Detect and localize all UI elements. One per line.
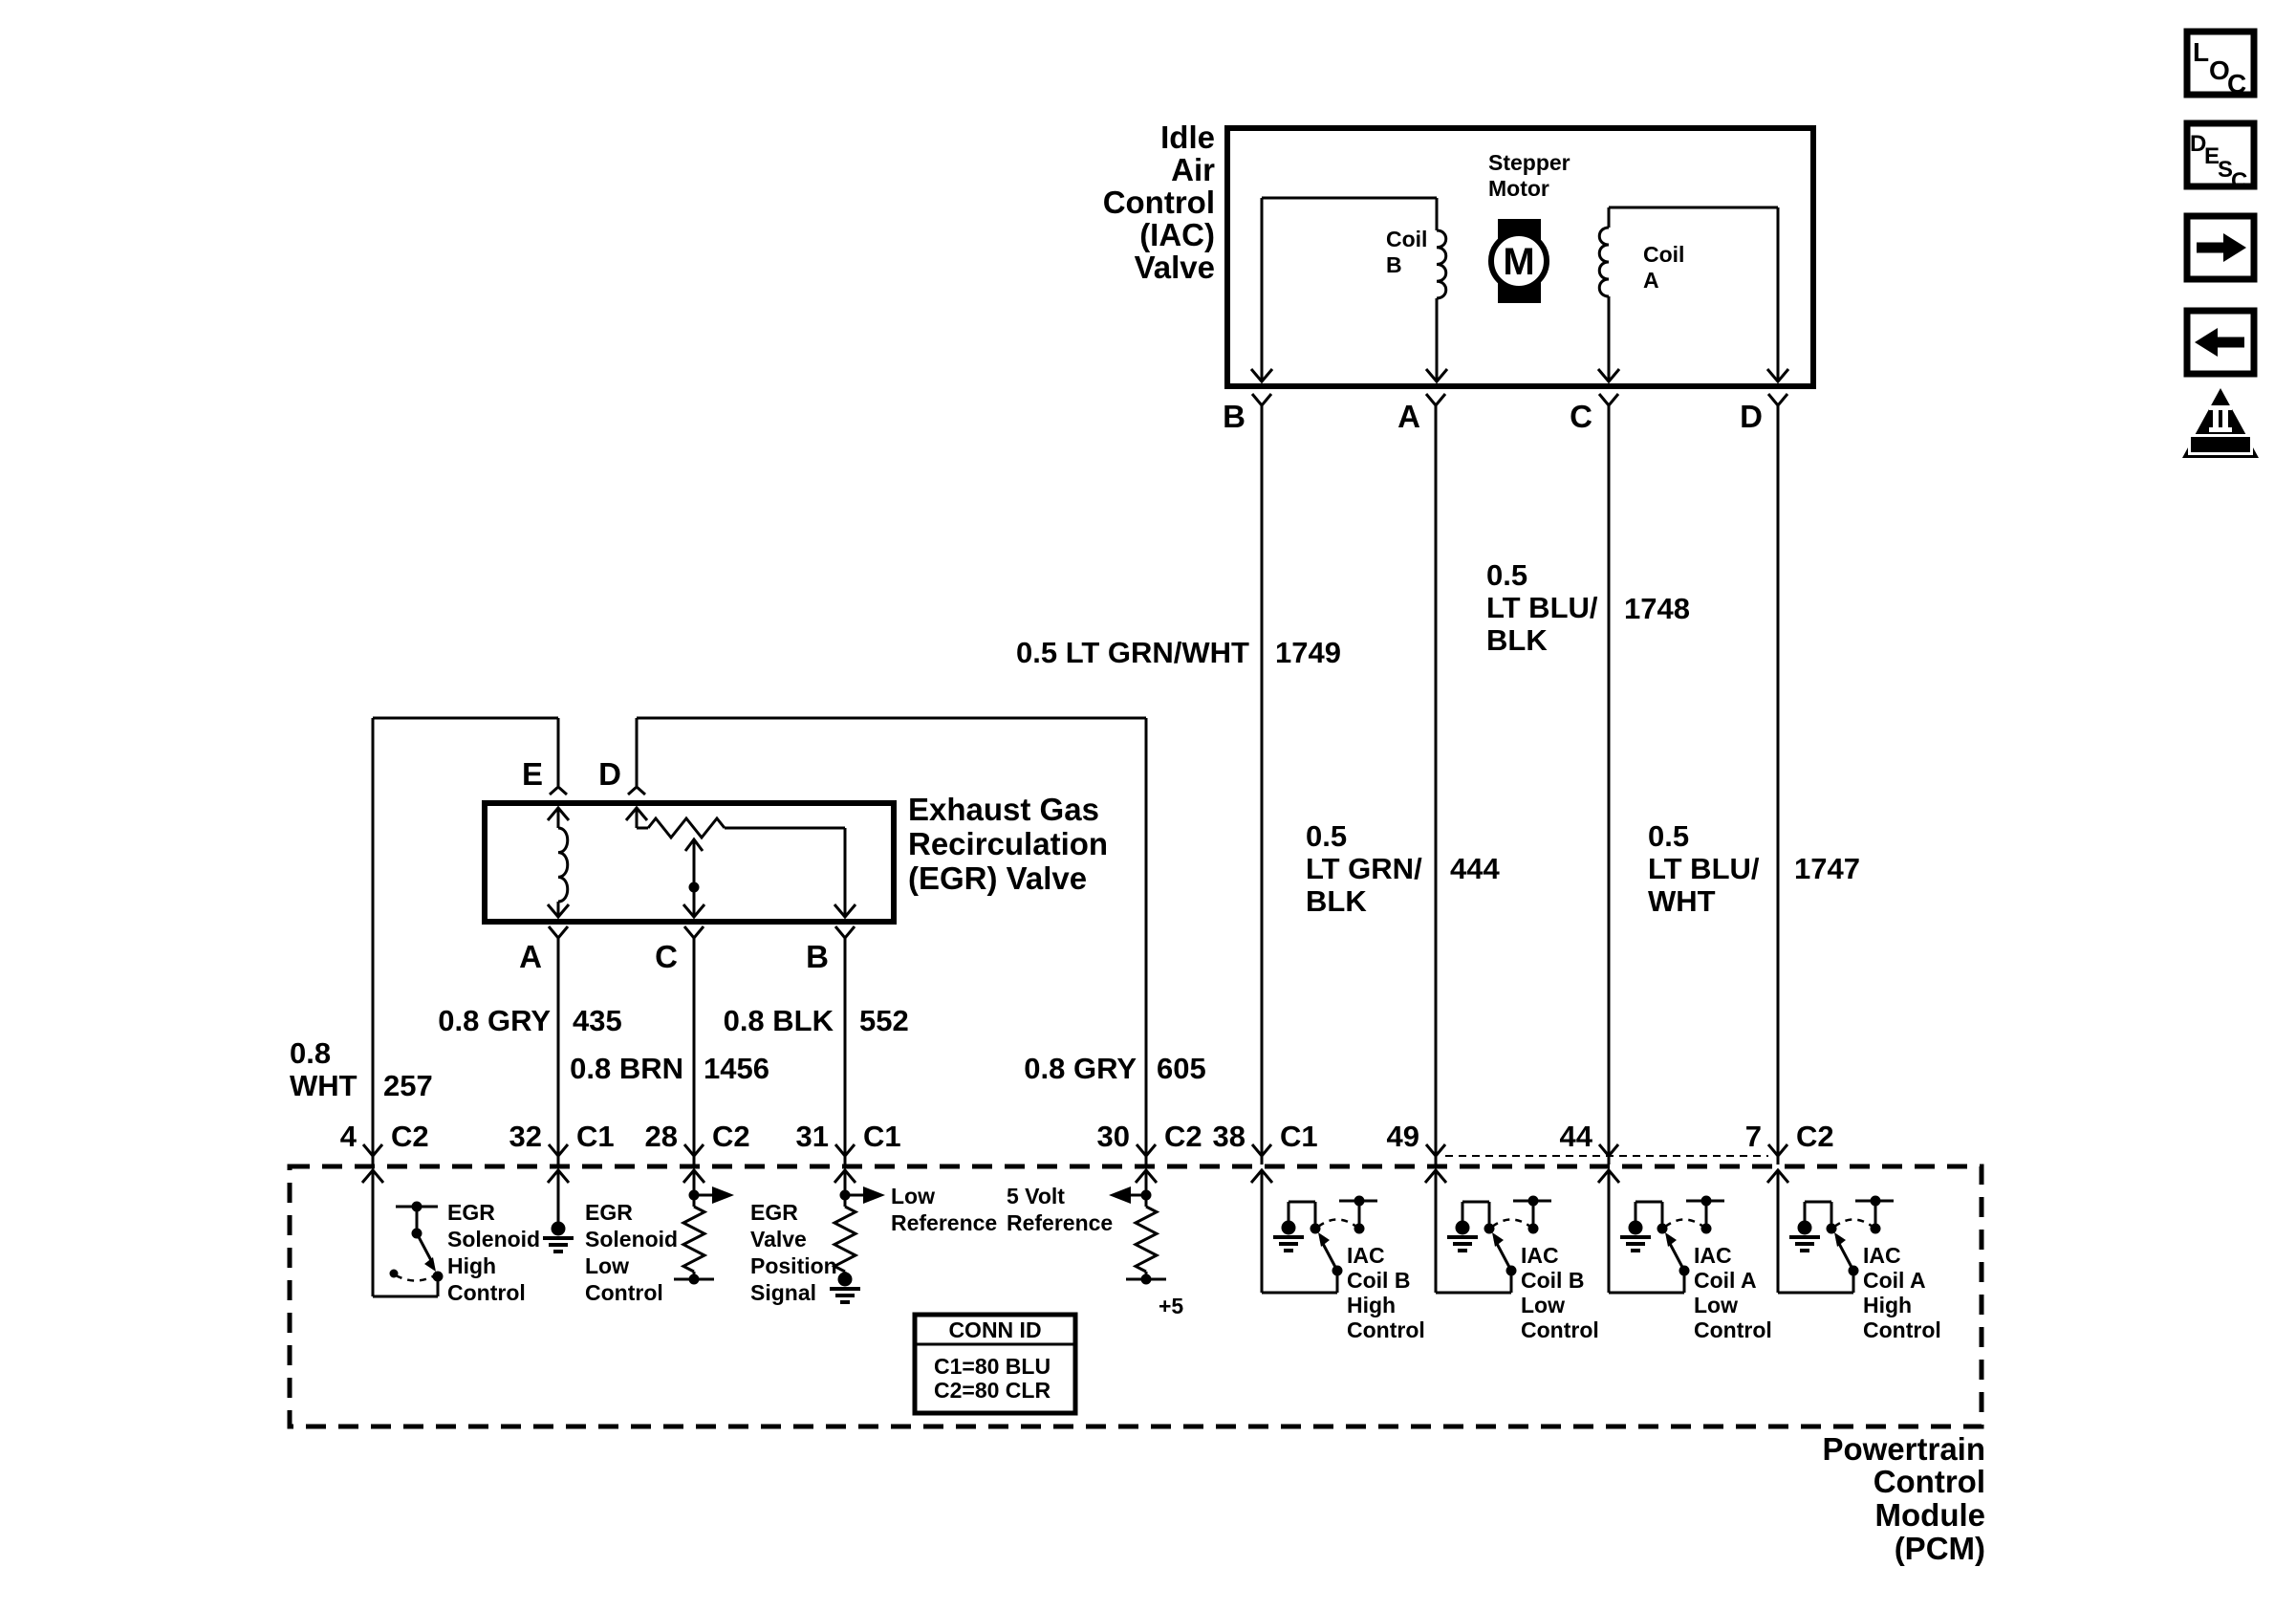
PCM module dashed box: [290, 1166, 1982, 1426]
PCM pin 38 connector C1: [1252, 1144, 1271, 1156]
pin C of IAC valve: [1599, 394, 1618, 405]
svg-text:(PCM): (PCM): [1895, 1531, 1985, 1566]
svg-text:LT BLU/: LT BLU/: [1648, 852, 1760, 885]
low reference input (PCM pin 31): [834, 1170, 856, 1183]
svg-text:Valve: Valve: [750, 1227, 807, 1252]
navigation icon DESC: [2187, 123, 2254, 186]
PCM pin 4 connector C2: [363, 1144, 382, 1156]
svg-text:Stepper: Stepper: [1488, 150, 1570, 175]
IAC coil A low control driver (PCM pin 44): [1598, 1170, 1619, 1183]
wire 605 (EGR pin D up and over to PCM pin 30): [636, 718, 639, 786]
svg-text:EGR: EGR: [750, 1200, 798, 1225]
svg-text:Reference: Reference: [891, 1210, 997, 1235]
pin D of EGR valve: [628, 787, 645, 795]
svg-text:31: 31: [796, 1120, 829, 1153]
EGR valve component box: [485, 803, 894, 922]
PCM pin 7 connector C2: [1768, 1144, 1787, 1156]
svg-text:WHT: WHT: [1648, 884, 1716, 918]
svg-text:0.5: 0.5: [1306, 819, 1347, 853]
svg-text:0.8 BLK: 0.8 BLK: [724, 1004, 834, 1037]
svg-text:C: C: [2231, 168, 2247, 194]
svg-text:EGR: EGR: [447, 1200, 495, 1225]
svg-text:Control: Control: [1521, 1317, 1599, 1342]
svg-text:0.8: 0.8: [290, 1036, 331, 1070]
svg-text:0.5: 0.5: [1486, 558, 1527, 592]
svg-text:605: 605: [1157, 1052, 1206, 1085]
svg-text:IAC: IAC: [1694, 1243, 1732, 1268]
svg-text:C1: C1: [576, 1120, 615, 1153]
svg-text:Position: Position: [750, 1253, 837, 1278]
5 volt reference output (PCM pin 30): [1136, 1170, 1157, 1183]
svg-text:Coil A: Coil A: [1694, 1268, 1757, 1293]
wire: IAC coil A left leg to pin C: [1608, 207, 1611, 228]
PCM pin 30 connector C2: [1137, 1144, 1156, 1156]
svg-text:A: A: [1397, 399, 1420, 434]
navigation icon OBD II triangle: [2182, 388, 2259, 458]
svg-text:Motor: Motor: [1488, 176, 1549, 201]
svg-text:7: 7: [1745, 1120, 1762, 1153]
svg-text:C1: C1: [1280, 1120, 1318, 1153]
PCM pin 28 connector C2: [684, 1144, 704, 1156]
svg-text:C2=80 CLR: C2=80 CLR: [934, 1378, 1051, 1403]
connector grouping dashed line (pins 49-44-7): [1445, 1155, 1768, 1157]
svg-text:High: High: [1863, 1293, 1912, 1317]
pin B of IAC valve: [1252, 394, 1271, 405]
svg-text:44: 44: [1560, 1120, 1593, 1153]
IAC coil B low control driver (PCM pin 49): [1425, 1170, 1446, 1183]
svg-text:Valve: Valve: [1135, 250, 1215, 285]
svg-text:BLK: BLK: [1486, 623, 1548, 657]
svg-text:1749: 1749: [1275, 636, 1341, 669]
pin A of EGR valve: [549, 926, 568, 938]
svg-text:C2: C2: [391, 1120, 429, 1153]
IAC coil B high control driver (PCM pin 38): [1251, 1170, 1272, 1183]
navigation icon forward arrow: [2187, 216, 2254, 279]
svg-text:High: High: [447, 1253, 496, 1278]
svg-text:A: A: [519, 939, 542, 974]
svg-text:Exhaust Gas: Exhaust Gas: [908, 792, 1099, 827]
svg-text:435: 435: [573, 1004, 622, 1037]
svg-text:CONN ID: CONN ID: [948, 1317, 1041, 1342]
wire 444 (IAC pin A to PCM pin 49): [1435, 405, 1438, 1156]
svg-text:Control: Control: [1347, 1317, 1425, 1342]
svg-text:28: 28: [645, 1120, 678, 1153]
svg-text:E: E: [522, 756, 543, 792]
svg-text:32: 32: [509, 1120, 542, 1153]
svg-text:IAC: IAC: [1347, 1243, 1385, 1268]
svg-text:0.8 BRN: 0.8 BRN: [570, 1052, 683, 1085]
pin C of EGR valve: [684, 926, 704, 938]
svg-text:Control: Control: [1863, 1317, 1941, 1342]
wire 1456 (EGR pin C to PCM pin 28): [693, 938, 696, 1156]
pin A of IAC valve: [1426, 394, 1445, 405]
wire: IAC coil B right leg to pin A: [1436, 198, 1439, 230]
svg-text:552: 552: [859, 1004, 909, 1037]
svg-text:EGR: EGR: [585, 1200, 633, 1225]
CONN ID legend table: [915, 1315, 1075, 1413]
PCM pin 44 connector C2: [1599, 1144, 1618, 1156]
svg-text:1747: 1747: [1794, 852, 1860, 885]
wire 1748 (IAC pin C to PCM pin 44): [1608, 405, 1611, 1156]
svg-text:Low: Low: [1694, 1293, 1738, 1317]
svg-text:0.8 GRY: 0.8 GRY: [1024, 1052, 1137, 1085]
wire 435 (EGR pin A to PCM pin 32): [557, 938, 560, 1156]
svg-text:Recirculation: Recirculation: [908, 826, 1108, 861]
svg-text:Air: Air: [1171, 152, 1215, 187]
svg-text:B: B: [1223, 399, 1245, 434]
wire 1747 (IAC pin D to PCM pin 7): [1777, 405, 1780, 1156]
EGR valve position signal input (PCM pin 28): [683, 1170, 704, 1183]
wire 257 (PCM pin 4 up and over to EGR pin E): [372, 718, 375, 1156]
svg-text:30: 30: [1097, 1120, 1130, 1153]
svg-text:Solenoid: Solenoid: [447, 1227, 540, 1252]
svg-text:C: C: [655, 939, 678, 974]
svg-text:Solenoid: Solenoid: [585, 1227, 678, 1252]
EGR solenoid coil inductor: [558, 828, 568, 902]
svg-text:M: M: [1503, 241, 1534, 283]
svg-text:BLK: BLK: [1306, 884, 1367, 918]
svg-text:0.5 LT GRN/WHT: 0.5 LT GRN/WHT: [1016, 636, 1249, 669]
svg-text:0.5: 0.5: [1648, 819, 1689, 853]
svg-text:A: A: [1643, 268, 1659, 293]
svg-text:B: B: [1386, 252, 1402, 277]
svg-text:Coil B: Coil B: [1347, 1268, 1410, 1293]
svg-text:Coil: Coil: [1386, 227, 1427, 251]
pin E of EGR valve: [550, 787, 567, 795]
svg-text:Coil B: Coil B: [1521, 1268, 1584, 1293]
svg-text:Low: Low: [891, 1184, 935, 1208]
PCM pin 31 connector C1: [835, 1144, 855, 1156]
PCM pin 32 connector C1: [549, 1144, 568, 1156]
svg-text:D: D: [1740, 399, 1763, 434]
svg-text:L: L: [2193, 37, 2209, 67]
svg-text:WHT: WHT: [290, 1069, 357, 1102]
svg-text:Module: Module: [1875, 1497, 1985, 1533]
IAC valve component box: [1227, 128, 1813, 386]
EGR position sensor resistor: [648, 818, 725, 838]
wire: IAC coil A right leg to pin D: [1777, 207, 1780, 381]
stepper motor M (IAC): [1498, 219, 1541, 303]
EGR solenoid low control ground (PCM pin 32): [548, 1170, 569, 1183]
svg-text:+5: +5: [1159, 1294, 1183, 1318]
wire: EGR coil to top edge (pin E): [548, 808, 569, 820]
wire: IAC coil B left leg to pin B: [1261, 198, 1264, 381]
coil B inductor (IAC): [1437, 230, 1446, 298]
coil A inductor (IAC): [1599, 228, 1609, 296]
svg-text:Control: Control: [585, 1280, 663, 1305]
svg-text:Control: Control: [1103, 185, 1215, 220]
wire: EGR sensor resistor to pin B: [725, 827, 845, 830]
svg-text:38: 38: [1213, 1120, 1245, 1153]
svg-text:444: 444: [1450, 852, 1500, 885]
svg-text:(IAC): (IAC): [1139, 217, 1215, 252]
svg-text:257: 257: [383, 1069, 433, 1102]
EGR sensor wiper to pin C: [685, 839, 703, 851]
navigation icon back arrow: [2187, 311, 2254, 374]
wire 1749 (IAC pin B to PCM pin 38): [1261, 405, 1264, 1156]
svg-text:B: B: [806, 939, 829, 974]
wire: pin D to EGR sensor resistor: [626, 808, 647, 820]
svg-text:Reference: Reference: [1007, 1210, 1113, 1235]
pin B of EGR valve: [835, 926, 855, 938]
svg-text:5 Volt: 5 Volt: [1007, 1184, 1065, 1208]
svg-text:Control: Control: [1694, 1317, 1772, 1342]
svg-text:C1=80 BLU: C1=80 BLU: [934, 1354, 1051, 1379]
svg-text:(EGR) Valve: (EGR) Valve: [908, 860, 1087, 896]
svg-text:D: D: [598, 756, 621, 792]
svg-text:Control: Control: [1874, 1464, 1985, 1499]
svg-text:Coil: Coil: [1643, 242, 1684, 267]
svg-text:0.8 GRY: 0.8 GRY: [438, 1004, 551, 1037]
svg-text:C: C: [2227, 69, 2246, 98]
svg-text:High: High: [1347, 1293, 1396, 1317]
svg-text:LT GRN/: LT GRN/: [1306, 852, 1422, 885]
svg-text:C2: C2: [1164, 1120, 1202, 1153]
PCM pin 49 connector C2: [1426, 1144, 1445, 1156]
svg-text:C2: C2: [712, 1120, 750, 1153]
svg-text:IAC: IAC: [1863, 1243, 1901, 1268]
svg-text:LT BLU/: LT BLU/: [1486, 591, 1598, 624]
svg-text:C1: C1: [863, 1120, 901, 1153]
svg-text:Low: Low: [585, 1253, 629, 1278]
wire: EGR coil to bottom edge (pin A): [557, 902, 560, 916]
svg-text:Coil A: Coil A: [1863, 1268, 1926, 1293]
svg-text:C2: C2: [1796, 1120, 1834, 1153]
svg-text:Powertrain: Powertrain: [1822, 1431, 1985, 1467]
svg-text:C: C: [1570, 399, 1592, 434]
pin D of IAC valve: [1768, 394, 1787, 405]
navigation icon LOC (top right): [2187, 32, 2254, 95]
svg-text:IAC: IAC: [1521, 1243, 1559, 1268]
svg-text:1456: 1456: [704, 1052, 769, 1085]
svg-text:4: 4: [340, 1120, 357, 1153]
svg-text:Idle: Idle: [1160, 120, 1215, 155]
svg-text:OBD II: OBD II: [2199, 437, 2242, 453]
svg-text:1748: 1748: [1624, 592, 1690, 625]
EGR solenoid high control driver (PCM pin 4): [362, 1170, 383, 1183]
wire 552 (EGR pin B to PCM pin 31): [844, 938, 847, 1156]
IAC coil A high control driver (PCM pin 7): [1767, 1170, 1788, 1183]
svg-text:Control: Control: [447, 1280, 526, 1305]
svg-text:49: 49: [1387, 1120, 1419, 1153]
svg-text:Low: Low: [1521, 1293, 1565, 1317]
svg-text:Signal: Signal: [750, 1280, 816, 1305]
